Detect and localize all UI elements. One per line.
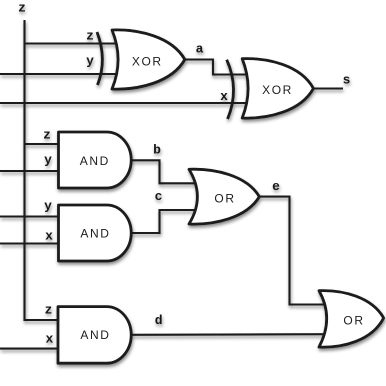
svg-text:a: a [196, 42, 204, 57]
svg-text:AND: AND [80, 328, 110, 342]
wire x to AND2 [0, 242, 62, 244]
and gate AND3 [58, 307, 131, 364]
svg-text:z: z [86, 29, 94, 44]
and gate AND1 [59, 132, 132, 188]
svg-text:z: z [45, 303, 53, 318]
svg-text:c: c [155, 189, 163, 204]
svg-text:x: x [45, 229, 53, 244]
svg-text:d: d [155, 313, 163, 328]
wire z branch to XOR1 [25, 42, 123, 44]
svg-text:x: x [220, 89, 228, 104]
svg-text:AND: AND [80, 226, 110, 240]
xor gate U2 input arc [227, 60, 234, 119]
svg-text:x: x [45, 332, 53, 347]
wire x to AND3 [0, 348, 62, 350]
or gate U4 [319, 291, 384, 347]
svg-text:y: y [86, 54, 94, 69]
svg-text:AND: AND [80, 154, 110, 168]
svg-text:b: b [153, 143, 161, 158]
wire s: XOR2 output [313, 87, 343, 89]
svg-text:s: s [343, 73, 351, 88]
xor gate U2 body [242, 59, 313, 118]
wire y to XOR1 [0, 73, 122, 75]
svg-text:y: y [44, 153, 52, 168]
svg-text:y: y [44, 199, 52, 214]
svg-text:e: e [272, 179, 280, 194]
wire b: AND1 out to OR1 in [130, 160, 198, 183]
or gate U3 [189, 169, 259, 224]
xor gate U1 body [112, 30, 185, 89]
svg-text:OR: OR [343, 313, 364, 327]
svg-text:OR: OR [214, 192, 235, 206]
wire e: OR1 out to OR2 in [258, 197, 328, 305]
wire c: AND2 out to OR1 in [130, 210, 198, 233]
and gate AND2 [59, 205, 132, 261]
svg-text:XOR: XOR [132, 55, 163, 69]
wire d: AND3 out to OR2 in [130, 333, 328, 336]
wire y to AND2 [0, 215, 62, 217]
xor gate U1 input arc [97, 32, 102, 85]
svg-text:z: z [43, 128, 51, 143]
wire z bus vertical [25, 20, 63, 320]
wire z branch to AND1 [25, 143, 63, 145]
wire y to AND1 [0, 170, 62, 172]
svg-text:z: z [18, 1, 26, 16]
wire a: XOR1 out to XOR2 in [184, 60, 250, 75]
wire x to XOR2 [0, 102, 250, 104]
svg-text:XOR: XOR [262, 83, 293, 97]
